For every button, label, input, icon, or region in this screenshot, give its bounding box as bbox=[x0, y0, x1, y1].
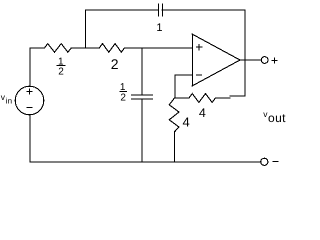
label v_in bbox=[1, 92, 12, 105]
resistor R3 value 4 feedback bbox=[189, 94, 215, 103]
wire R2 to op-amp plus input bbox=[124, 47, 192, 49]
wire op-amp output bbox=[240, 59, 261, 61]
resistor R1 value 1/2 bbox=[44, 44, 71, 53]
wire top feedback right bbox=[162, 9, 245, 11]
op-amp minus input marker bbox=[196, 74, 202, 76]
wire source to top rail bbox=[29, 48, 31, 86]
resistor R2 value 2 bbox=[99, 44, 124, 53]
terminal output minus bbox=[261, 158, 268, 165]
wire feedback R3 right stub bbox=[215, 97, 230, 99]
source minus marker bbox=[27, 107, 33, 109]
op-amp plus input marker bbox=[196, 46, 202, 48]
label terminal plus sign bbox=[272, 60, 278, 62]
wire between R1 and node A bbox=[71, 47, 99, 49]
wire source to bottom rail bbox=[29, 115, 31, 162]
label C2 value 1/2 fraction bbox=[119, 82, 126, 104]
label R1 value 1/2 fraction bbox=[56, 57, 65, 78]
svg-text:out: out bbox=[268, 111, 286, 125]
terminal output plus bbox=[261, 57, 268, 64]
svg-text:2: 2 bbox=[58, 67, 64, 78]
op-amp U1 bbox=[192, 34, 240, 86]
wire R4 bottom stub bbox=[174, 132, 176, 162]
svg-text:2: 2 bbox=[111, 56, 119, 72]
wire node A vertical bbox=[85, 10, 87, 48]
wire node B vertical to capacitor C2 bbox=[141, 48, 143, 95]
label terminal minus sign bbox=[272, 160, 278, 162]
svg-text:2: 2 bbox=[120, 93, 126, 104]
voltage source Vin bbox=[15, 86, 44, 115]
svg-text:4: 4 bbox=[199, 106, 206, 120]
wire bottom rail bbox=[30, 161, 261, 163]
wire feedback R3 left stub bbox=[175, 97, 189, 99]
wire feedback right jog bbox=[230, 95, 245, 97]
wire input left bbox=[30, 47, 44, 49]
wire capacitor C2 to bottom rail bbox=[141, 99, 143, 162]
label v_out bbox=[263, 109, 286, 125]
capacitor C1 value 1 bbox=[159, 4, 163, 16]
capacitor C2 value 1/2 bbox=[132, 95, 153, 99]
wire feedback vertical bbox=[244, 10, 246, 96]
svg-text:4: 4 bbox=[182, 114, 189, 129]
source plus marker bbox=[27, 91, 33, 93]
wire top feedback left bbox=[86, 9, 159, 11]
svg-text:1: 1 bbox=[156, 22, 162, 34]
svg-text:in: in bbox=[6, 97, 12, 106]
resistor R4 value 4 vertical bbox=[169, 98, 179, 132]
wire op-amp minus input bbox=[175, 75, 192, 98]
